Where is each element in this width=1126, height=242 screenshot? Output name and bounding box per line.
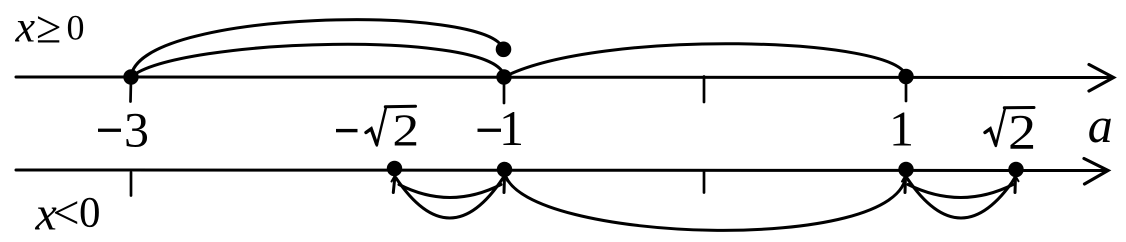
- big arc from -1 to 1 below line: [505, 174, 906, 230]
- arc from -3 to floating point above -1: [131, 20, 503, 77]
- arrow stem under point -sqrt2: [393, 176, 395, 193]
- deep arc from sqrt2 to 1 below line: [907, 178, 1015, 218]
- svg-text:2: 2: [392, 105, 419, 156]
- arrow stem under point -1 bottom: [503, 176, 507, 193]
- arc from -3 to -1 on top line: [131, 44, 504, 77]
- radical sign of label -sqrt2: [366, 129, 377, 144]
- arrow barbs under point -1 bottom: [501, 176, 508, 182]
- arrow stem under point 1 bottom: [904, 176, 908, 193]
- svg-text:<: <: [53, 187, 80, 240]
- point 1 on top line: [898, 69, 913, 84]
- label minus of -sqrt2: [336, 129, 358, 132]
- arrow barbs under point 1 bottom: [902, 176, 909, 182]
- svg-text:1: 1: [889, 101, 914, 157]
- top number line: [16, 76, 1110, 80]
- tick -3 on top line: [129, 79, 132, 102]
- point -1 on bottom line: [497, 162, 512, 177]
- svg-text:2: 2: [1008, 104, 1036, 160]
- svg-text:x: x: [15, 3, 36, 52]
- label -3: [98, 129, 121, 132]
- tick -1 on top line: [503, 79, 506, 103]
- arc from -1 to 1 on top line: [504, 44, 906, 77]
- svg-text:0: 0: [67, 8, 85, 48]
- svg-text:0: 0: [79, 190, 101, 237]
- radical sign of label sqrt2: [985, 129, 996, 145]
- svg-text:3: 3: [124, 102, 149, 158]
- shallow arc from sqrt2 to 1 below line: [908, 185, 1013, 198]
- point -sqrt2 on bottom line: [387, 161, 402, 176]
- bottom axis arrowhead: [1084, 159, 1108, 185]
- tick -3 on bottom line: [130, 173, 133, 196]
- tick 0 on bottom line: [703, 172, 706, 193]
- top axis arrowhead: [1089, 65, 1114, 92]
- arrow stem under point sqrt2: [1014, 176, 1018, 193]
- arrow barbs under point sqrt2: [1012, 176, 1019, 182]
- tick 1 on top line: [905, 79, 908, 101]
- deep arc from -1 to -sqrt2 below line: [396, 178, 503, 218]
- svg-text:a: a: [1088, 97, 1113, 153]
- point sqrt2 on bottom line: [1008, 162, 1023, 177]
- point 1 on bottom line: [898, 162, 913, 177]
- floating point above -1: [496, 42, 512, 58]
- label -1: [478, 129, 502, 132]
- bottom number line: [16, 169, 1104, 173]
- arrow barbs under point -sqrt2: [392, 176, 399, 182]
- svg-text:≥: ≥: [36, 2, 61, 53]
- point -3 on top line: [123, 69, 138, 84]
- point -1 on top line: [496, 69, 511, 84]
- shallow arc from -1 to -sqrt2 below line: [399, 185, 501, 198]
- tick 0 on top line: [703, 77, 706, 103]
- svg-text:1: 1: [499, 100, 524, 156]
